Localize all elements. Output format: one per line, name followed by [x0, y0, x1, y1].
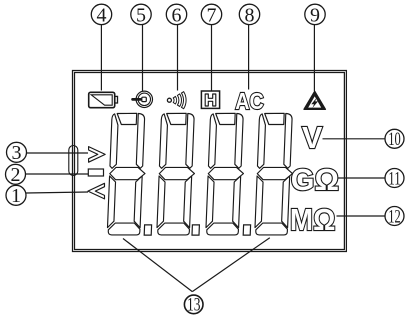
callout 12: [337, 207, 405, 226]
svg-text:AC: AC: [235, 88, 263, 114]
callout 10: [323, 129, 405, 148]
battery icon: [89, 92, 118, 107]
svg-text:10: 10: [388, 129, 401, 150]
svg-text:12: 12: [388, 207, 401, 228]
decimal point 3: [243, 225, 250, 235]
svg-text:9: 9: [310, 4, 320, 26]
svg-text:13: 13: [187, 296, 201, 316]
border jump arc on left edge: [69, 146, 78, 176]
seven-segment digit 3: [206, 113, 246, 235]
decimal point 1: [144, 225, 151, 235]
svg-text:7: 7: [207, 4, 217, 26]
seven-segment digit 1: [107, 113, 147, 235]
svg-text:5: 5: [136, 4, 146, 26]
seven-segment digit 2: [157, 113, 197, 235]
callout 11: [336, 169, 405, 188]
high voltage warning triangle: [304, 91, 325, 109]
svg-text:MΩ: MΩ: [290, 203, 336, 237]
svg-text:4: 4: [97, 4, 107, 26]
external power icon: [131, 91, 152, 107]
less-than symbol: [88, 183, 105, 199]
callout 7: [201, 4, 221, 90]
svg-text:V: V: [302, 121, 323, 155]
seven-segment digit 4: [255, 113, 295, 235]
greater-than symbol: [89, 147, 106, 163]
callout 13: [123, 238, 270, 314]
svg-text:8: 8: [245, 4, 255, 26]
callout 8: [239, 4, 259, 89]
svg-text:1: 1: [11, 185, 21, 207]
svg-text:3: 3: [12, 142, 22, 164]
svg-text:6: 6: [172, 4, 182, 26]
callout 9: [305, 4, 325, 91]
minus/range rectangle symbol: [88, 169, 103, 176]
svg-text:11: 11: [388, 169, 401, 190]
svg-text:GΩ: GΩ: [291, 163, 339, 197]
buzzer / sound icon: [167, 92, 186, 109]
svg-text:2: 2: [11, 164, 21, 186]
decimal point 2: [192, 225, 199, 235]
callout 1: [6, 185, 88, 205]
callout 2: [6, 164, 89, 184]
callout 6: [166, 4, 186, 90]
display outline (double frame): [73, 71, 347, 252]
callout 4: [91, 4, 111, 90]
callout 5: [131, 4, 151, 91]
hold (H) icon: [201, 91, 219, 108]
callout 3: [7, 142, 89, 162]
